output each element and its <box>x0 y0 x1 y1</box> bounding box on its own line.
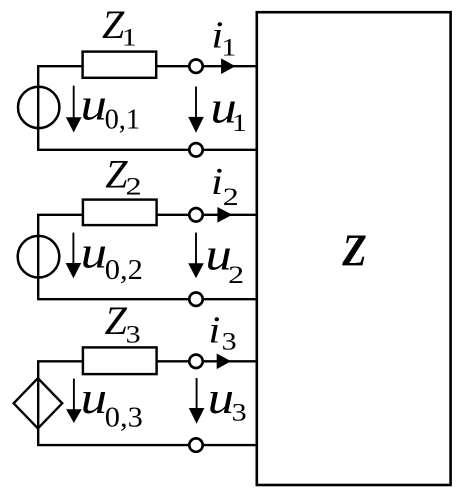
voltage arrow u0,2 <box>66 233 82 279</box>
svg-text:3: 3 <box>222 327 237 356</box>
wire: top rail, source to Z box <box>37 214 83 216</box>
wire: bottom rail, terminal to network <box>204 444 257 446</box>
wire: bottom rail, source to terminal <box>37 444 188 446</box>
voltage source u0,1 (circle symbol) <box>18 87 59 128</box>
svg-text:i: i <box>208 309 220 351</box>
wire: bottom rail, source to terminal <box>37 149 188 151</box>
impedance Z3 (series box) <box>83 347 157 374</box>
wire: top rail, Z box to terminal <box>157 360 188 362</box>
svg-text:u: u <box>81 228 108 278</box>
voltage arrow u2 <box>188 233 204 279</box>
svg-text:u: u <box>208 373 235 423</box>
wire: top rail, terminal to network <box>204 214 257 216</box>
terminal node port 1 (top) <box>189 59 202 72</box>
controlled source u0,3 (diamond symbol) <box>14 378 63 428</box>
terminal node port 2 (top) <box>189 208 202 221</box>
svg-text:Z: Z <box>105 298 128 343</box>
svg-text:0,3: 0,3 <box>105 402 143 434</box>
wire: bottom rail, terminal to network <box>204 298 257 300</box>
wire: left vertical through source <box>37 361 39 445</box>
current arrow i1 <box>221 58 235 74</box>
svg-text:1: 1 <box>232 108 247 137</box>
terminal node port 3 (bottom) <box>189 438 202 451</box>
wire: top rail, Z box to terminal <box>157 214 188 216</box>
wire: top rail, Z box to terminal <box>156 65 188 67</box>
svg-text:i: i <box>211 161 223 203</box>
wire: left vertical through source <box>37 215 39 299</box>
wire: top rail, source to Z box <box>37 360 83 362</box>
voltage arrow u0,3 <box>66 379 82 423</box>
svg-text:1: 1 <box>122 22 137 51</box>
voltage arrow u3 <box>189 378 205 424</box>
terminal node port 1 (bottom) <box>189 143 202 156</box>
svg-text:3: 3 <box>126 320 141 349</box>
svg-text:Z: Z <box>341 225 366 276</box>
terminal node port 2 (bottom) <box>189 293 202 306</box>
svg-text:2: 2 <box>126 171 142 200</box>
current arrow i3 <box>217 354 231 370</box>
wire: bottom rail, terminal to network <box>204 149 257 151</box>
svg-text:2: 2 <box>228 260 244 289</box>
wire: top rail, terminal to network <box>204 360 257 362</box>
svg-text:u: u <box>81 373 108 423</box>
svg-text:u: u <box>81 79 108 129</box>
impedance Z1 (series box) <box>83 52 157 78</box>
terminal node port 3 (top) <box>189 355 202 368</box>
wire: top rail, source to Z box <box>37 65 83 67</box>
current arrow i2 <box>217 207 232 223</box>
svg-text:1: 1 <box>221 32 236 61</box>
voltage arrow u1 <box>188 87 204 133</box>
wire: left vertical through source <box>37 66 39 150</box>
impedance Z2 (series box) <box>83 200 157 226</box>
voltage arrow u0,1 <box>66 86 82 133</box>
wire: bottom rail, source to terminal <box>37 298 188 300</box>
svg-text:2: 2 <box>223 182 239 211</box>
svg-text:0,2: 0,2 <box>105 254 143 286</box>
svg-text:3: 3 <box>232 398 247 427</box>
voltage source u0,2 (circle symbol) <box>18 236 60 278</box>
svg-text:0,1: 0,1 <box>105 103 141 135</box>
wire: top rail, terminal to network <box>204 65 257 67</box>
impedance network box Z <box>257 12 451 485</box>
